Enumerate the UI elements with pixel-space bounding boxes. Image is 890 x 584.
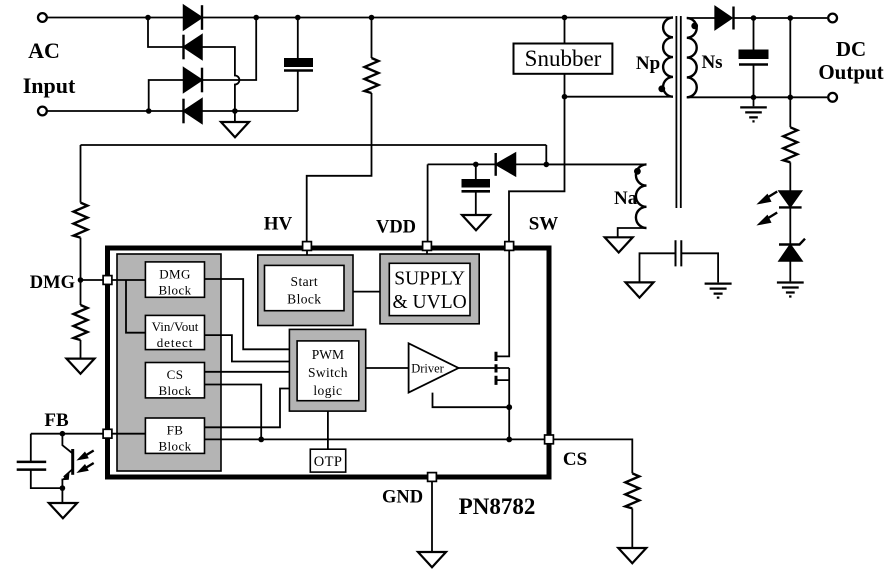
svg-text:Block: Block (158, 383, 191, 398)
wire Start to SUPPLY (353, 291, 380, 293)
ground Y-cap left (626, 282, 654, 297)
pin CS (545, 435, 554, 444)
diode zener (779, 245, 802, 262)
AC input terminal bottom (38, 107, 47, 116)
node FB bottom (60, 485, 66, 491)
svg-text:Block: Block (158, 282, 191, 297)
capacitor FB (31, 434, 63, 488)
resistor DMG upper (74, 203, 88, 238)
svg-text:GND: GND (382, 488, 423, 508)
svg-text:DMG: DMG (159, 266, 191, 281)
node CS rail right (506, 437, 512, 443)
transistor optocoupler photo (62, 434, 72, 488)
op IC PN8782 outline (108, 248, 550, 477)
svg-text:DC: DC (836, 37, 866, 61)
block Vin/Vout detect (145, 315, 204, 349)
svg-text:SW: SW (529, 214, 559, 235)
node FB (60, 431, 66, 437)
DC output terminal minus (828, 93, 837, 102)
svg-text:CS: CS (563, 449, 587, 470)
block OTP (310, 449, 345, 472)
wire Ns bottom rail (687, 96, 827, 98)
wire DMG chain top (80, 145, 82, 203)
capacitor VDD (475, 164, 477, 215)
svg-text:Block: Block (287, 292, 321, 307)
wire LED to zener (789, 207, 791, 244)
diode D3 bridge (184, 68, 203, 93)
wire Na to ground (618, 228, 647, 237)
svg-text:Na: Na (614, 188, 638, 209)
arrows into phototransistor (82, 451, 94, 458)
node output cap bottom rail (751, 95, 757, 101)
wire FB external (31, 433, 103, 435)
wire CS rail internal (205, 438, 550, 440)
wire D2 cathode riser with hop (202, 47, 239, 111)
snubber block (564, 18, 566, 97)
ground DMG (80, 340, 82, 359)
wire VDD pin to SUPPLY (426, 248, 428, 254)
resistor divider (783, 127, 797, 162)
wire divider to resistor (789, 97, 791, 127)
svg-text:Switch: Switch (308, 365, 348, 380)
ground Na (605, 237, 633, 252)
transformer core (676, 16, 680, 208)
wire D3 anode from bottom rail (149, 80, 184, 111)
svg-text:Driver: Driver (411, 361, 444, 375)
diode D2 bridge (184, 35, 203, 60)
resistor HV startup (top) (307, 18, 372, 245)
pin FB (103, 429, 112, 438)
resistor DMG lower (80, 280, 82, 305)
wire HV pin to Start (306, 248, 308, 255)
ground FB (61, 488, 63, 503)
LED arrows (764, 192, 777, 200)
block gray left (117, 254, 221, 471)
wire bus y145 (81, 144, 547, 146)
ground earth Y-cap right (705, 284, 732, 298)
capacitor Y between grounds (676, 240, 682, 266)
node bottom rail junctions (146, 108, 152, 114)
block DMG Block (145, 262, 204, 297)
wire Driver feedback to source (433, 393, 510, 408)
diode D1 bridge top (184, 5, 203, 30)
svg-text:HV: HV (264, 214, 293, 235)
wire Ns top to output (687, 17, 827, 19)
ground under bridge (234, 111, 236, 122)
svg-text:Ns: Ns (701, 52, 722, 73)
wire FB pin to FB Block (110, 433, 145, 435)
wire GND external (431, 482, 433, 553)
svg-text:detect: detect (157, 335, 193, 350)
node feedback divider top (788, 15, 794, 21)
wire top rail (47, 17, 673, 19)
op-amp Driver (409, 343, 459, 392)
wire CS Block to PWM (205, 371, 290, 373)
ground earth zener (777, 283, 804, 297)
ground GND pin (418, 552, 446, 567)
block SUPPLY UVLO (380, 254, 479, 324)
pin SW (505, 242, 514, 251)
pin VDD (423, 242, 432, 251)
block Start Block (258, 255, 353, 326)
block CS Block (145, 363, 204, 398)
capacitor output (753, 18, 755, 97)
svg-text:Np: Np (636, 53, 660, 74)
svg-text:VDD: VDD (376, 218, 416, 238)
svg-text:Input: Input (23, 73, 76, 98)
diode output rectifier (715, 7, 732, 30)
svg-text:PWM: PWM (312, 347, 344, 362)
wire FB Block to PWM (205, 389, 290, 428)
svg-text:FB: FB (44, 410, 69, 431)
node top rail junctions (145, 15, 151, 21)
svg-text:DMG: DMG (30, 273, 75, 293)
svg-text:OTP: OTP (314, 454, 343, 470)
svg-text:Vin/Vout: Vin/Vout (152, 319, 199, 334)
pin DMG (103, 276, 112, 285)
ground CS (631, 508, 633, 548)
wire PWM to OTP (327, 411, 329, 449)
node snubber bottom (562, 94, 568, 100)
diode D4 bridge bottom (184, 99, 203, 124)
wire DMG pin to DMG Block and Vin/Vout (110, 280, 145, 333)
transformer winding Na (546, 163, 646, 165)
wire CS external (553, 439, 632, 473)
node CS rail left (258, 437, 264, 443)
diode VDD rectifier (496, 153, 516, 176)
node Ns polarity dot (691, 23, 698, 30)
svg-text:FB: FB (167, 422, 184, 437)
svg-text:& UVLO: & UVLO (392, 292, 466, 313)
ground earth output (753, 97, 755, 106)
wire Vin/Vout to PWM (205, 335, 290, 361)
svg-text:SUPPLY: SUPPLY (394, 269, 465, 290)
wire Driver to gate (459, 367, 495, 369)
transistor MOSFET Q1 (497, 250, 509, 407)
LED optocoupler diode (779, 191, 802, 207)
svg-text:Block: Block (158, 439, 191, 454)
block PWM Switch logic (289, 329, 365, 411)
transformer winding Np (663, 18, 673, 97)
node DMG (78, 277, 84, 283)
node output cap top (751, 15, 757, 21)
wire source to CS rail (508, 407, 510, 439)
svg-text:Start: Start (291, 274, 319, 289)
ground VDD cap (462, 215, 490, 230)
wire CS Block to CS rail (205, 385, 262, 440)
node VDD diode anode (544, 162, 550, 168)
node Na polarity dot (634, 168, 641, 175)
wire D3 cathode to top rail (202, 18, 256, 81)
wire VDD row (428, 164, 647, 244)
svg-text:logic: logic (313, 383, 342, 398)
pin HV (303, 242, 312, 251)
wire to DMG node (81, 238, 104, 280)
node source junction (506, 404, 512, 410)
transformer winding Ns (687, 18, 697, 97)
pin GND (428, 473, 437, 482)
wire DMG Block to PWM (205, 279, 290, 349)
wire D2 anode from top rail (148, 18, 184, 48)
svg-text:AC: AC (28, 38, 60, 63)
svg-text:PN8782: PN8782 (459, 494, 536, 519)
capacitor bulk C1 (297, 18, 299, 112)
svg-text:Snubber: Snubber (525, 46, 602, 71)
wire y145 drop to VDD diode node (545, 145, 547, 164)
svg-text:Output: Output (818, 60, 883, 84)
resistor CS sense (625, 473, 639, 508)
AC input terminal top (38, 13, 47, 22)
wire snubber to SW (509, 97, 565, 244)
wire Np bottom (565, 96, 674, 98)
DC output terminal plus (828, 14, 837, 23)
node VDD cap (473, 162, 479, 168)
block FB Block (145, 418, 204, 453)
node divider bottom rail (788, 95, 794, 101)
wire bottom rail (47, 110, 298, 112)
node Np polarity dot (658, 85, 665, 92)
wire PWM to Driver (366, 367, 409, 369)
svg-text:CS: CS (167, 367, 184, 382)
wire feedback riser (789, 18, 791, 97)
